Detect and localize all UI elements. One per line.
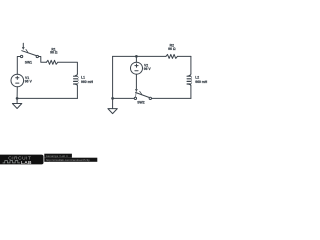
svg-text:96 V: 96 V xyxy=(144,67,152,71)
svg-text:96 Ω: 96 Ω xyxy=(50,51,58,55)
svg-text:L2: L2 xyxy=(195,75,199,79)
svg-text:960 mH: 960 mH xyxy=(195,80,208,84)
svg-text:SW2: SW2 xyxy=(137,101,144,105)
svg-text:96 Ω: 96 Ω xyxy=(168,47,176,51)
svg-text:http://circuitlab.com/c/andrew: http://circuitlab.com/c/andrew47c3p xyxy=(46,158,90,162)
svg-text:L1: L1 xyxy=(81,75,85,79)
svg-text:LAB: LAB xyxy=(21,160,32,165)
svg-text:960 mH: 960 mH xyxy=(81,80,94,84)
svg-text:SW1: SW1 xyxy=(25,61,32,65)
svg-text:96 V: 96 V xyxy=(25,80,33,84)
